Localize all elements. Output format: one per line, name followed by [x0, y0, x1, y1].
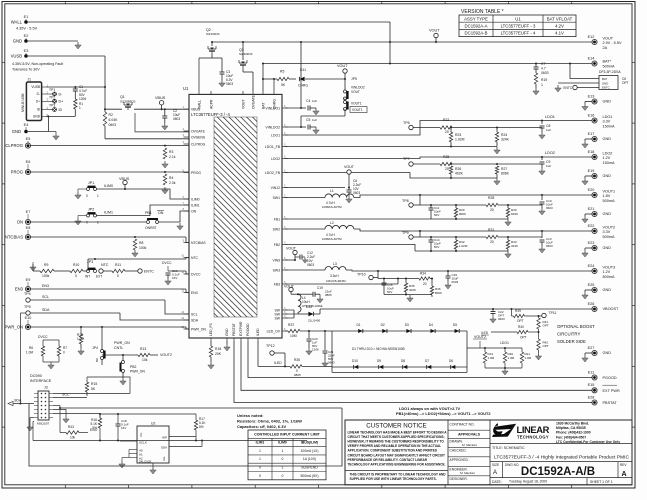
svg-text:LDO1: LDO1	[271, 133, 280, 137]
svg-text:LINEAR TECHNOLOGY HAS MADE A B: LINEAR TECHNOLOGY HAS MADE A BEST EFFORT…	[348, 431, 448, 435]
svg-text:EN3: EN3	[15, 287, 24, 292]
svg-text:J3: J3	[44, 386, 48, 390]
svg-text:GND: GND	[12, 129, 21, 134]
svg-text:PB2: PB2	[130, 365, 137, 369]
svg-text:A: A	[493, 470, 497, 476]
svg-text:1.3M: 1.3M	[508, 356, 515, 360]
svg-text:PBSTAT: PBSTAT	[232, 323, 236, 336]
svg-text:NTCBIAS: NTCBIAS	[5, 235, 23, 240]
svg-text:500mA: 500mA	[603, 64, 615, 68]
svg-text:Resistors: Ohms, 0402, 1%, 1/1: Resistors: Ohms, 0402, 1%, 1/16W	[237, 419, 302, 424]
svg-text:0603: 0603	[546, 244, 553, 248]
svg-text:LDO2_FB: LDO2_FB	[265, 171, 281, 175]
svg-text:NTC: NTC	[101, 263, 109, 267]
svg-text:L2: L2	[330, 221, 334, 225]
svg-text:VBOOST: VBOOST	[603, 307, 620, 311]
svg-text:1206: 1206	[312, 348, 319, 352]
svg-text:E15: E15	[588, 383, 595, 387]
svg-text:FB3: FB3	[274, 282, 280, 286]
svg-text:EXTPWR: EXTPWR	[239, 321, 243, 336]
svg-text:DRAWN.: DRAWN.	[450, 440, 463, 444]
svg-text:L3: L3	[333, 262, 337, 266]
svg-text:OPTIONAL BOOST: OPTIONAL BOOST	[557, 324, 595, 329]
svg-text:TP12: TP12	[266, 344, 275, 348]
svg-text:GND: GND	[603, 212, 612, 216]
svg-text:HOWEVER, IT REMAINS THE CUSTOM: HOWEVER, IT REMAINS THE CUSTOMERS RESPON…	[348, 440, 445, 444]
svg-text:4.7: 4.7	[541, 67, 546, 71]
svg-text:SDA: SDA	[161, 446, 167, 450]
svg-text:20: 20	[445, 130, 449, 134]
svg-text:R22: R22	[443, 118, 449, 122]
svg-text:ON: ON	[17, 220, 23, 225]
svg-text:806K: 806K	[459, 212, 466, 216]
svg-text:DVCC: DVCC	[162, 261, 172, 265]
svg-text:C4: C4	[306, 99, 310, 103]
svg-text:R31: R31	[488, 228, 494, 232]
svg-text:VIN12: VIN12	[271, 186, 281, 190]
svg-text:VINLDO2: VINLDO2	[265, 125, 280, 129]
svg-text:402K: 402K	[455, 172, 464, 176]
svg-text:1630 McCarthy Blvd.: 1630 McCarthy Blvd.	[556, 422, 589, 426]
svg-text:E20: E20	[588, 188, 595, 192]
svg-text:OPT: OPT	[520, 336, 527, 340]
svg-text:0603: 0603	[109, 123, 117, 127]
svg-text:R5: R5	[280, 70, 284, 74]
svg-text:SW3: SW3	[273, 268, 280, 272]
svg-text:R15: R15	[91, 382, 97, 386]
svg-text:R24: R24	[501, 133, 507, 137]
svg-text:LDO1: LDO1	[545, 115, 555, 119]
svg-text:16V: 16V	[172, 276, 177, 280]
svg-text:3.3uH: 3.3uH	[330, 274, 339, 278]
svg-text:ENTC: ENTC	[563, 86, 572, 90]
svg-text:150mA: 150mA	[603, 124, 615, 128]
svg-text:OVGATE: OVGATE	[251, 94, 255, 109]
svg-text:0: 0	[86, 221, 88, 225]
svg-text:20: 20	[490, 208, 494, 212]
svg-text:U2: U2	[151, 422, 155, 426]
svg-text:R4: R4	[169, 176, 173, 180]
svg-text:E22: E22	[588, 224, 595, 228]
svg-text:ID: ID	[59, 108, 63, 112]
svg-text:LDO1: LDO1	[500, 341, 509, 345]
svg-text:CHECKED.: CHECKED.	[450, 449, 467, 453]
svg-text:R18: R18	[215, 347, 221, 351]
svg-text:5%: 5%	[92, 426, 97, 430]
svg-text:SHEET 1 OF 1: SHEET 1 OF 1	[590, 480, 613, 484]
svg-text:SOLDER SIDE: SOLDER SIDE	[557, 339, 586, 344]
svg-text:TP2: TP2	[49, 96, 55, 100]
svg-text:E14: E14	[588, 56, 595, 60]
svg-text:BAT: BAT	[261, 103, 265, 109]
svg-text:E11: E11	[588, 370, 594, 374]
svg-text:100k: 100k	[42, 274, 50, 278]
svg-text:ENTC: ENTC	[144, 270, 154, 274]
svg-text:DATE:: DATE:	[492, 480, 502, 484]
svg-text:APPROVED.: APPROVED.	[450, 458, 469, 462]
svg-text:1: 1	[259, 449, 261, 453]
svg-text:TP8: TP8	[402, 199, 409, 203]
svg-text:GND: GND	[603, 351, 612, 355]
svg-text:1: 1	[97, 221, 99, 225]
svg-text:EXT PWR: EXT PWR	[603, 389, 620, 393]
svg-text:CHRG: CHRG	[272, 99, 276, 109]
svg-text:OVGATE: OVGATE	[191, 129, 206, 133]
svg-text:1A (10X): 1A (10X)	[303, 457, 316, 461]
svg-text:Si2333DS: Si2333DS	[206, 32, 220, 36]
svg-text:LTC3577EUFF-3 / -4: LTC3577EUFF-3 / -4	[191, 112, 230, 117]
svg-text:Q1: Q1	[120, 95, 125, 99]
svg-text:TP11: TP11	[549, 311, 557, 315]
svg-text:LINEAR: LINEAR	[517, 424, 550, 435]
svg-text:E4: E4	[24, 123, 29, 127]
svg-text:E9: E9	[26, 278, 31, 282]
svg-text:0603: 0603	[498, 317, 505, 321]
svg-text:APPLICATION. COMPONENT SUBSTI: APPLICATION. COMPONENT SUBSTITUTION AND …	[348, 449, 438, 453]
svg-text:SDA: SDA	[14, 399, 22, 403]
svg-text:OPT: OPT	[543, 324, 549, 328]
svg-text:VERSION TABLE *: VERSION TABLE *	[461, 9, 504, 15]
svg-text:1.02M: 1.02M	[455, 138, 465, 142]
svg-text:TP5: TP5	[24, 305, 31, 309]
svg-text:CONTRACT NO.: CONTRACT NO.	[450, 423, 475, 427]
svg-text:1uF: 1uF	[546, 164, 551, 168]
svg-text:VINLDO2: VINLDO2	[351, 86, 365, 90]
svg-text:LDO1_FB: LDO1_FB	[265, 145, 281, 149]
svg-text:5%: 5%	[199, 425, 204, 429]
svg-text:Tuesday, August 18, 2009: Tuesday, August 18, 2009	[509, 479, 547, 483]
svg-text:10k: 10k	[142, 358, 148, 362]
svg-text:E18: E18	[588, 150, 595, 154]
svg-text:Capacitors: uF, 0402, 6.3V: Capacitors: uF, 0402, 6.3V	[237, 424, 286, 429]
svg-text:4.35V - 5.5V: 4.35V - 5.5V	[16, 27, 38, 31]
svg-text:VOUT: VOUT	[241, 100, 245, 109]
svg-text:R11: R11	[115, 263, 121, 267]
svg-text:50V: 50V	[387, 290, 392, 294]
svg-text:LDO1: LDO1	[603, 115, 613, 119]
svg-text:R37: R37	[288, 323, 294, 327]
svg-text:100k: 100k	[139, 246, 147, 250]
svg-text:1uF: 1uF	[546, 128, 551, 132]
svg-text:D9: D9	[377, 359, 381, 363]
svg-text:1: 1	[541, 83, 543, 87]
svg-text:R7: R7	[63, 346, 67, 350]
svg-text:50V: 50V	[434, 245, 439, 249]
svg-text:E24: E24	[588, 264, 595, 268]
svg-text:E13: E13	[588, 94, 595, 98]
svg-text:0: 0	[282, 457, 284, 461]
svg-text:R26: R26	[455, 167, 461, 171]
svg-text:Vss: Vss	[162, 456, 166, 461]
svg-text:M6: M6	[95, 358, 99, 362]
svg-text:VOUT1: VOUT1	[603, 190, 616, 194]
svg-text:VOUT1: VOUT1	[351, 102, 362, 106]
svg-text:Tolerance To 30V: Tolerance To 30V	[12, 68, 40, 72]
svg-text:D10: D10	[352, 359, 358, 363]
svg-text:SIZE: SIZE	[492, 463, 499, 467]
svg-text:NTC: NTC	[191, 256, 199, 260]
svg-text:ZLLS400: ZLLS400	[308, 319, 321, 323]
svg-text:5K: 5K	[91, 387, 96, 391]
svg-text:LTC3577EUFF-3 / -4 Highly Inte: LTC3577EUFF-3 / -4 Highly Integrated Por…	[494, 455, 629, 461]
svg-text:D8: D8	[401, 359, 405, 363]
svg-text:VOUT: VOUT	[351, 90, 360, 94]
svg-text:D4: D4	[429, 323, 433, 327]
svg-text:TECHNOLOGY: TECHNOLOGY	[517, 435, 549, 440]
svg-text:C7: C7	[541, 62, 545, 66]
svg-text:VOUT: VOUT	[337, 64, 348, 68]
svg-text:ASSY TYPE: ASSY TYPE	[464, 16, 488, 21]
svg-text:LTC3577EUFF - 4: LTC3577EUFF - 4	[501, 31, 536, 36]
svg-text:R34: R34	[420, 272, 426, 276]
svg-text:TECHNOLOGY APPLICATIONS ENGINE: TECHNOLOGY APPLICATIONS ENGINEERING FOR …	[348, 462, 446, 466]
svg-text:R38: R38	[294, 358, 300, 362]
svg-text:1.2V: 1.2V	[603, 270, 611, 274]
svg-text:Phone: (408)432-1900: Phone: (408)432-1900	[556, 431, 591, 435]
svg-text:PWR_ON: PWR_ON	[5, 325, 23, 330]
svg-text:DC590: DC590	[30, 374, 42, 378]
svg-text:ILED: ILED	[481, 331, 489, 335]
svg-text:2.0k: 2.0k	[169, 181, 176, 185]
svg-text:ILIM0: ILIM0	[191, 197, 200, 201]
svg-text:20: 20	[445, 167, 449, 171]
svg-text:THIS CIRCUIT IS PROPRIETARY TO: THIS CIRCUIT IS PROPRIETARY TO LINEAR TE…	[350, 473, 447, 477]
svg-text:VOUT1: VOUT1	[352, 108, 363, 112]
svg-text:VOUT: VOUT	[286, 247, 297, 251]
svg-text:0: 0	[63, 351, 65, 355]
svg-text:ILIM1: ILIM1	[191, 203, 200, 207]
svg-text:R28: R28	[488, 196, 494, 200]
svg-text:R43: R43	[68, 425, 74, 429]
svg-text:PWR_ON: PWR_ON	[130, 370, 145, 374]
svg-text:Si2333DS: Si2333DS	[239, 52, 253, 56]
svg-text:6.04K: 6.04K	[109, 118, 119, 122]
svg-text:JP1: JP1	[88, 181, 94, 185]
svg-text:ILIM1: ILIM1	[256, 441, 265, 445]
svg-text:Fax: (408)434-0507: Fax: (408)434-0507	[556, 435, 586, 439]
svg-text:PWR_ON: PWR_ON	[191, 327, 206, 331]
svg-text:E8: E8	[26, 226, 31, 230]
svg-text:3.3V: 3.3V	[603, 120, 611, 124]
svg-text:800mA: 800mA	[603, 275, 615, 279]
svg-text:SCL: SCL	[191, 312, 198, 316]
svg-text:1.0M: 1.0M	[26, 351, 33, 355]
svg-text:324K: 324K	[501, 138, 510, 142]
svg-text:50V: 50V	[434, 213, 439, 217]
svg-text:ILED: ILED	[274, 361, 282, 365]
svg-text:INTERFACE: INTERFACE	[30, 379, 52, 383]
svg-text:500mA (5X): 500mA (5X)	[301, 474, 319, 478]
svg-text:10k: 10k	[70, 436, 76, 440]
svg-text:LDO2: LDO2	[271, 157, 280, 161]
svg-text:LTC3577EUFF - 3: LTC3577EUFF - 3	[501, 24, 536, 29]
svg-text:IBUS(ILIM): IBUS(ILIM)	[301, 441, 318, 445]
svg-text:1: 1	[97, 194, 99, 198]
svg-text:VUSB: VUSB	[31, 85, 40, 89]
svg-text:GND: GND	[603, 99, 612, 103]
svg-text:5K: 5K	[281, 83, 286, 87]
svg-text:E28: E28	[588, 395, 595, 399]
svg-text:2A: 2A	[603, 46, 608, 50]
svg-text:VOUT: VOUT	[344, 165, 355, 169]
svg-text:GND: GND	[603, 137, 612, 141]
svg-text:1.0M: 1.0M	[525, 356, 532, 360]
svg-text:0: 0	[86, 194, 88, 198]
svg-text:500mA: 500mA	[603, 199, 615, 203]
svg-text:L1: L1	[330, 189, 334, 193]
svg-text:0603: 0603	[328, 361, 335, 365]
svg-text:324K: 324K	[511, 244, 518, 248]
svg-text:R10: R10	[73, 263, 79, 267]
svg-text:E6: E6	[26, 160, 31, 164]
svg-text:INT: INT	[85, 275, 90, 279]
svg-text:DVCC: DVCC	[38, 335, 48, 339]
svg-text:D+: D+	[36, 100, 40, 104]
svg-text:CONTROLLED INPUT CURRENT LIMIT: CONTROLLED INPUT CURRENT LIMIT	[254, 432, 320, 436]
svg-text:TP6: TP6	[403, 121, 410, 125]
svg-text:VOUT: VOUT	[603, 37, 614, 41]
svg-text:Si2308BDS: Si2308BDS	[120, 100, 136, 104]
svg-text:R8: R8	[139, 241, 143, 245]
svg-text:E19: E19	[588, 169, 595, 173]
svg-text:PROG: PROG	[191, 171, 201, 175]
svg-text:D2: D2	[381, 323, 385, 327]
svg-text:VUSB: VUSB	[11, 54, 23, 59]
svg-text:R39: R39	[515, 309, 521, 313]
svg-text:0: 0	[75, 274, 77, 278]
svg-text:GND: GND	[603, 246, 612, 250]
svg-text:E21: E21	[588, 207, 595, 211]
svg-text:ILIM0: ILIM0	[104, 184, 113, 188]
svg-text:OPT: OPT	[517, 319, 524, 323]
svg-text:CIRCUIT THAT MEETS CUSTOMER-SU: CIRCUIT THAT MEETS CUSTOMER-SUPPLIED SPE…	[348, 435, 445, 439]
svg-text:0603: 0603	[307, 263, 314, 267]
svg-text:CNTL: CNTL	[114, 346, 123, 350]
svg-text:806K: 806K	[501, 172, 510, 176]
svg-text:0: 0	[117, 274, 119, 278]
svg-text:0: 0	[282, 474, 284, 478]
svg-text:ILED: ILED	[256, 328, 260, 336]
svg-text:E2: E2	[24, 34, 29, 38]
svg-text:LDO2: LDO2	[545, 151, 555, 155]
svg-text:2.1k: 2.1k	[169, 155, 176, 159]
svg-text:4.35V-5.5V, Non-operating Faul: 4.35V-5.5V, Non-operating Fault	[12, 62, 63, 66]
svg-text:10F2A5-3R3M: 10F2A5-3R3M	[326, 279, 346, 283]
svg-text:E16: E16	[588, 113, 595, 117]
svg-text:E17: E17	[588, 132, 595, 136]
svg-text:VOUT3: VOUT3	[603, 266, 616, 270]
svg-text:DF3-3P-2DSA: DF3-3P-2DSA	[599, 70, 621, 74]
svg-text:MSQS07: MSQS07	[37, 422, 50, 426]
svg-text:ILIM0: ILIM0	[278, 441, 287, 445]
svg-text:CIRCUITRY: CIRCUITRY	[557, 332, 580, 337]
svg-text:OPT: OPT	[622, 81, 629, 85]
svg-text:VIN3: VIN3	[272, 258, 280, 262]
svg-text:E12: E12	[588, 35, 595, 39]
svg-text:DWG NO.: DWG NO.	[505, 463, 519, 467]
svg-text:TP1: TP1	[49, 88, 55, 92]
svg-text:PERFORMANCE OR RELIABILITY. C: PERFORMANCE OR RELIABILITY. CONTACT LINE…	[348, 458, 428, 462]
svg-text:GND: GND	[13, 39, 22, 44]
svg-text:0: 0	[259, 466, 261, 470]
svg-text:GND: GND	[603, 174, 612, 178]
svg-text:R3: R3	[169, 150, 173, 154]
svg-text:U1: U1	[515, 16, 521, 21]
svg-text:REV: REV	[620, 463, 627, 467]
svg-text:VBUS: VBUS	[155, 96, 166, 100]
svg-text:D1 THRU D10 = NICHIA NSSW100B: D1 THRU D10 = NICHIA NSSW100B	[352, 347, 405, 351]
svg-text:150mA: 150mA	[603, 161, 615, 165]
svg-text:0603: 0603	[226, 82, 233, 86]
svg-text:ONRST: ONRST	[145, 226, 157, 230]
svg-text:TP7: TP7	[403, 157, 410, 161]
svg-text:GND: GND	[33, 115, 41, 119]
svg-text:649K: 649K	[511, 212, 518, 216]
svg-text:E23: E23	[588, 241, 595, 245]
svg-text:1.8V: 1.8V	[603, 194, 611, 198]
svg-text:VOUT2: VOUT2	[603, 226, 616, 230]
svg-text:Vcc: Vcc	[139, 432, 143, 437]
svg-text:TP9: TP9	[402, 231, 409, 235]
svg-text:20K: 20K	[215, 352, 222, 356]
svg-text:ACPR: ACPR	[209, 99, 213, 109]
svg-text:VOUT2: VOUT2	[474, 335, 486, 339]
svg-text:ENTC: ENTC	[602, 86, 610, 90]
svg-text:PROG: PROG	[11, 170, 23, 175]
svg-text:R2: R2	[109, 113, 113, 117]
svg-text:D6: D6	[449, 359, 453, 363]
svg-text:Unless noted:: Unless noted:	[237, 413, 263, 418]
svg-text:1.02M: 1.02M	[459, 244, 468, 248]
svg-text:WALL: WALL	[197, 100, 201, 109]
svg-text:TP10: TP10	[357, 273, 366, 277]
svg-text:WALL: WALL	[11, 20, 23, 25]
svg-text:1.2V: 1.2V	[603, 156, 611, 160]
svg-text:EN3: EN3	[42, 284, 49, 288]
svg-text:1098AS-4R7M: 1098AS-4R7M	[322, 237, 342, 241]
svg-text:CIRCUIT BOARD LAYOUT MAY SIGNI: CIRCUIT BOARD LAYOUT MAY SIGNIFICANTLY A…	[348, 453, 446, 457]
svg-text:SW2: SW2	[273, 227, 280, 231]
svg-text:SCL: SCL	[62, 393, 69, 397]
svg-text:806K: 806K	[435, 291, 442, 295]
svg-text:VBUS: VBUS	[119, 177, 130, 181]
svg-text:SCL: SCL	[42, 295, 49, 299]
svg-text:LED_FS: LED_FS	[209, 322, 213, 336]
svg-text:SW1: SW1	[273, 196, 280, 200]
svg-text:DC1592A-B: DC1592A-B	[465, 31, 488, 36]
svg-text:1: 1	[282, 466, 284, 470]
svg-text:VERIFY PROPER AND RELIABLE OPE: VERIFY PROPER AND RELIABLE OPERATION IN …	[348, 444, 442, 448]
svg-text:24LC025: 24LC025	[139, 459, 152, 463]
svg-text:2.9V - 5.5V: 2.9V - 5.5V	[603, 41, 622, 45]
svg-text:BAT*: BAT*	[603, 60, 612, 64]
svg-text:402K: 402K	[409, 288, 416, 292]
svg-text:E10: E10	[25, 316, 32, 320]
svg-text:1: 1	[282, 449, 284, 453]
svg-text:D7: D7	[425, 359, 429, 363]
svg-text:4.2V: 4.2V	[555, 24, 564, 29]
svg-text:LTC Confidential-For Customer: LTC Confidential-For Customer Use Only	[556, 440, 620, 444]
svg-text:SUSPEND: SUSPEND	[301, 466, 318, 470]
svg-text:4.1V: 4.1V	[555, 31, 564, 36]
svg-text:D5: D5	[453, 323, 457, 327]
svg-text:VOUT2: VOUT2	[160, 353, 172, 357]
svg-text:E25: E25	[588, 283, 595, 287]
svg-text:ON: ON	[191, 209, 197, 213]
svg-text:E26: E26	[588, 302, 595, 306]
svg-text:R13: R13	[140, 347, 146, 351]
svg-text:LED_OV: LED_OV	[267, 329, 281, 333]
